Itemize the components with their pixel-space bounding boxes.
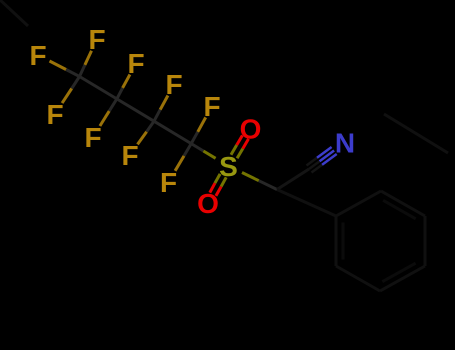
bond C1-F1 <box>50 61 80 77</box>
svg-text:F: F <box>88 24 105 55</box>
bond C3-F6 <box>154 96 168 122</box>
svg-text:O: O <box>240 114 262 145</box>
svg-text:F: F <box>121 140 138 171</box>
double bond S=O top <box>231 135 249 158</box>
svg-text:F: F <box>29 40 46 71</box>
bond S-Ccentral <box>242 173 277 190</box>
bond Ccentral-Cnitrile <box>277 169 309 190</box>
svg-text:N: N <box>335 128 355 159</box>
bond C2-F5 <box>100 99 117 126</box>
bond C4-F7 <box>191 117 206 143</box>
svg-text:F: F <box>160 167 177 198</box>
bond Ccentral-ring V1 <box>277 190 336 217</box>
wire chain C2-C3 <box>117 99 154 121</box>
wire chain C1-C2 <box>80 77 117 99</box>
bond C1-F3 <box>62 77 79 104</box>
ring edge V2-V3 <box>336 266 380 291</box>
ring edge V6-V1 <box>336 191 381 216</box>
ring inner line V1-V2 <box>342 223 345 260</box>
ring inner line V5-V6 <box>383 200 416 219</box>
double bond S=O bottom <box>210 174 226 196</box>
bond C4-F9 <box>175 144 191 171</box>
bond C3-F8 <box>138 121 155 144</box>
svg-text:F: F <box>203 91 220 122</box>
ring edge V4-V5 <box>424 216 427 266</box>
svg-text:F: F <box>46 99 63 130</box>
svg-text:F: F <box>127 48 144 79</box>
ring inner line V3-V4 <box>382 263 415 282</box>
bond C1-F2 <box>80 51 92 77</box>
svg-text:O: O <box>197 188 219 219</box>
stray fragment top-right <box>384 114 448 153</box>
svg-text:F: F <box>84 122 101 153</box>
bond C4-S <box>191 144 215 159</box>
ring edge V3-V4 <box>380 266 425 291</box>
svg-text:S: S <box>219 151 238 182</box>
bond C2-F4 <box>117 75 130 99</box>
stray fragment top-left corner <box>0 0 28 26</box>
ring edge V5-V6 <box>381 191 425 216</box>
ring edge V1-V2 <box>335 216 338 266</box>
triple bond C#N <box>307 147 337 173</box>
wire chain C3-C4 <box>154 121 191 143</box>
svg-text:F: F <box>165 69 182 100</box>
